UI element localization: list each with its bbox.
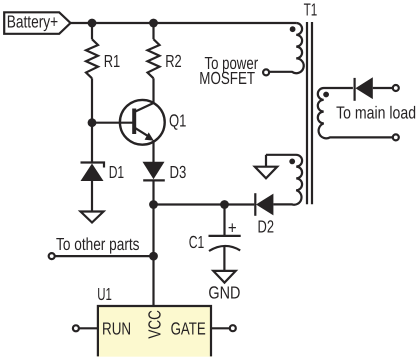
transformer T1 secondary winding — [318, 88, 393, 138]
junction: rail / R2 — [149, 19, 158, 28]
terminal: To power MOSFET — [263, 69, 269, 75]
wire: R1 branch vertical — [91, 23, 93, 39]
junction: rail / R1 — [88, 19, 97, 28]
wire: To other parts to VCC line — [55, 255, 154, 257]
junction: R1 / Q1 base / D1 — [88, 118, 97, 127]
phase dot (primary) — [290, 26, 296, 32]
terminal: main load top — [393, 85, 399, 91]
ground (aux arrow) — [255, 167, 277, 179]
junction: D3 / D2 / VCC node — [149, 200, 158, 209]
terminal: To other parts — [49, 253, 55, 259]
diode D3 — [143, 162, 165, 181]
terminal: GATE — [230, 325, 236, 331]
wire: GATE pin — [211, 327, 230, 329]
junction: To other parts / VCC line — [149, 252, 158, 261]
wire: D2 anode to aux winding — [273, 203, 292, 205]
wire: top rail from flag to transformer — [71, 22, 297, 24]
wire: VCC vertical line into U1 — [152, 205, 154, 307]
phase dot (aux) — [289, 159, 295, 165]
svg-text:To other parts: To other parts — [56, 234, 140, 254]
wire: R2 branch vertical — [152, 23, 154, 39]
wire: D3 to bottom node — [152, 181, 154, 204]
svg-text:D3: D3 — [170, 162, 187, 182]
svg-text:GND: GND — [208, 283, 240, 303]
Battery+ flag — [4, 12, 70, 34]
svg-text:VCC: VCC — [144, 310, 164, 339]
svg-text:U1: U1 — [97, 284, 112, 304]
transformer T1 aux winding — [266, 155, 302, 205]
diode (secondary, to main load) — [355, 77, 393, 101]
svg-text:T1: T1 — [304, 0, 318, 19]
phase dot (secondary) — [323, 92, 329, 98]
wire: aux winding to arrow ground — [265, 155, 267, 167]
svg-text:Battery+: Battery+ — [7, 11, 59, 31]
wire: base node to D1 — [91, 123, 93, 164]
svg-text:D2: D2 — [258, 217, 275, 237]
svg-text:To main load: To main load — [336, 102, 416, 122]
capacitor C1 — [209, 205, 241, 271]
svg-text:RUN: RUN — [102, 318, 131, 338]
terminal: main load bottom — [393, 134, 399, 140]
svg-text:D1: D1 — [109, 162, 124, 182]
svg-text:MOSFET: MOSFET — [199, 68, 255, 88]
junction: C1 top — [220, 200, 229, 209]
wire: R1 to base node — [91, 78, 93, 122]
zener diode D1 — [81, 163, 105, 212]
diode D2 — [255, 193, 273, 216]
svg-text:Q1: Q1 — [169, 111, 186, 131]
svg-text:C1: C1 — [189, 232, 205, 252]
resistor R2 — [148, 39, 160, 78]
ground (below D1) — [81, 212, 104, 223]
svg-text:R1: R1 — [104, 51, 121, 71]
IC U1 box — [97, 305, 212, 357]
wire: RUN pin — [79, 327, 98, 329]
ground (below C1) — [213, 271, 235, 283]
transistor Q1 — [92, 100, 165, 145]
svg-text:R2: R2 — [165, 51, 182, 71]
wire: Q1 emitter down to D3 — [152, 140, 154, 162]
svg-text:+: + — [228, 218, 237, 238]
svg-text:GATE: GATE — [171, 319, 206, 339]
wire: bottom node horizontal to D2 — [154, 203, 255, 205]
wire: R2 to Q1 collector — [152, 78, 154, 103]
resistor R1 — [86, 39, 98, 78]
transformer T1 primary winding — [269, 23, 303, 73]
terminal: RUN — [73, 325, 79, 331]
transformer T1 core — [307, 22, 312, 204]
